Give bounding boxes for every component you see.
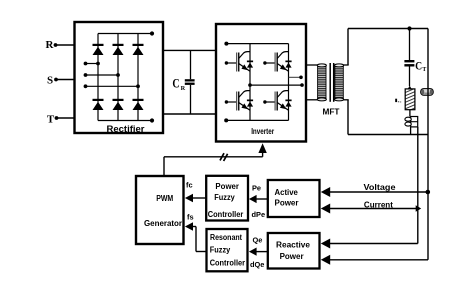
label CT xyxy=(415,59,426,73)
diode of Q1 (antiparallel, on leg) xyxy=(247,61,253,68)
load resistor (hatched workpiece) xyxy=(405,89,415,110)
DC link bottom wire xyxy=(163,113,216,115)
PWM generator label xyxy=(144,194,182,228)
power fuzzy controller block box xyxy=(206,176,248,221)
inverter top rail wire xyxy=(224,42,288,46)
transistor Q1 gate lead xyxy=(225,61,237,64)
transistor Q2 body xyxy=(275,52,288,72)
arrowhead into reactive power (voltage) xyxy=(321,255,330,265)
current sense wire (inner vertical) xyxy=(330,127,418,244)
current signal wire xyxy=(330,205,421,212)
MFT primary connection wires xyxy=(306,65,318,100)
arrowhead into reactive power (current) xyxy=(321,239,330,249)
transistor Q4 gate lead xyxy=(263,100,275,103)
diode of Q4 (antiparallel, on leg) xyxy=(285,100,291,107)
diode D4 (bottom row) xyxy=(93,99,104,110)
inverter block box xyxy=(216,24,306,142)
gating signal wire from PWM generator xyxy=(164,147,263,176)
transistor Q2 gate lead xyxy=(263,61,275,64)
svg-text:C: C xyxy=(172,77,179,91)
load inductance label L xyxy=(395,99,401,103)
diode D2 (top row) xyxy=(113,44,124,55)
capacitor CT xyxy=(404,60,414,86)
arrowhead into active power (current) xyxy=(321,204,330,214)
matching coil component xyxy=(405,117,418,127)
svg-text:Voltage: Voltage xyxy=(364,182,396,192)
svg-text:dPe: dPe xyxy=(252,210,266,219)
rectifier leg 1 wire xyxy=(97,34,99,121)
rectifier leg 2 wire xyxy=(117,34,119,121)
svg-text:Rectifier: Rectifier xyxy=(107,124,145,134)
svg-text:Reactive: Reactive xyxy=(276,241,311,250)
reactive power label xyxy=(276,241,311,262)
rectifier leg 3 wire xyxy=(137,34,139,121)
label CR xyxy=(172,77,185,92)
svg-text:Active: Active xyxy=(275,188,299,197)
junction dot bottom rail xyxy=(150,118,154,122)
current direction arrowhead xyxy=(408,86,412,90)
rectifier top rail wire xyxy=(98,33,152,35)
capacitor CR xyxy=(185,50,195,114)
three-phase input S xyxy=(47,75,75,87)
MFT core xyxy=(330,63,334,102)
arrowhead into inverter xyxy=(258,143,266,153)
diode of Q2 (antiparallel, on leg) xyxy=(285,61,291,68)
load loop left-bottom wire xyxy=(348,100,428,135)
wire coil to bottom line xyxy=(410,127,412,135)
svg-text:T: T xyxy=(47,113,55,125)
wire load to coil xyxy=(409,110,411,117)
svg-text:Power: Power xyxy=(275,199,299,208)
fc signal wire xyxy=(193,197,207,199)
PWM generator block box xyxy=(136,176,184,244)
phase tap wire 3 xyxy=(84,84,140,88)
svg-text:R: R xyxy=(46,39,55,51)
svg-text:Controller: Controller xyxy=(210,259,245,268)
svg-text:Fuzzy: Fuzzy xyxy=(214,193,235,202)
svg-text:Pe: Pe xyxy=(252,183,261,192)
arrowhead fc into PWM xyxy=(185,194,193,203)
phase tap wire 2 xyxy=(84,73,120,77)
svg-text:C: C xyxy=(415,59,422,73)
svg-text:Qe: Qe xyxy=(253,236,263,245)
capacitor CT branch wire xyxy=(409,29,411,61)
transistor Q3 gate lead xyxy=(225,100,237,103)
power fuzzy controller label xyxy=(208,182,244,219)
inverter right leg wire xyxy=(288,44,290,121)
arrowhead Qe into resonant fuzzy controller xyxy=(249,248,257,256)
three-phase input R xyxy=(46,39,75,51)
active power label xyxy=(275,188,299,208)
svg-text:Power: Power xyxy=(280,252,304,261)
diode of Q3 (antiparallel, on leg) xyxy=(247,100,253,107)
svg-text:dQe: dQe xyxy=(250,260,264,269)
inverter bottom rail wire xyxy=(224,118,288,122)
transistor Q1 body xyxy=(237,52,250,72)
active power block box xyxy=(268,180,320,217)
svg-text:Controller: Controller xyxy=(208,210,244,219)
inverter output stub wire 1 xyxy=(289,76,303,80)
svg-text:fs: fs xyxy=(187,213,194,222)
svg-text:Inverter: Inverter xyxy=(251,127,274,136)
inverter left leg wire xyxy=(249,44,251,121)
svg-text:R: R xyxy=(181,85,186,92)
svg-text:MFT: MFT xyxy=(323,107,341,117)
junction dot top rail xyxy=(150,31,154,35)
fs signal wire xyxy=(193,227,207,252)
three-phase input T xyxy=(47,113,75,125)
svg-text:Current: Current xyxy=(364,199,393,209)
Pe/dPe signal wire xyxy=(256,198,268,200)
svg-text:S: S xyxy=(47,75,53,87)
arrowhead into active power (voltage) xyxy=(321,187,330,197)
transistor Q4 body xyxy=(275,91,288,111)
junction dot on top line (node A) xyxy=(407,26,411,30)
diode D5 (bottom row) xyxy=(113,99,124,110)
resonant fuzzy controller block box xyxy=(207,229,248,271)
reactive power block box xyxy=(268,233,320,269)
svg-text:PWM: PWM xyxy=(156,194,173,203)
svg-text:Resonant: Resonant xyxy=(210,233,242,242)
MFT primary winding xyxy=(317,64,326,101)
svg-text:Generator: Generator xyxy=(144,219,182,228)
svg-text:T: T xyxy=(422,67,426,73)
Qe/dQe signal wire xyxy=(256,251,268,253)
transistor Q3 body xyxy=(237,91,250,111)
load loop right wire (through sensor) xyxy=(427,29,429,136)
rectifier bottom rail wire xyxy=(98,120,152,122)
arrowhead fs into PWM xyxy=(185,222,193,231)
current transformer sensor (toroid) xyxy=(421,89,434,96)
bus slash marks xyxy=(220,153,228,161)
MFT secondary connection wires xyxy=(343,65,348,100)
svg-text:Fuzzy: Fuzzy xyxy=(210,245,231,254)
voltage sense wire (right vertical) xyxy=(330,135,428,260)
MFT secondary winding xyxy=(335,64,344,101)
rectifier block box xyxy=(75,22,164,133)
resonant fuzzy controller label xyxy=(210,233,245,268)
voltage signal wire xyxy=(330,190,430,195)
phase tap wire 1 xyxy=(84,62,100,66)
DC link top wire xyxy=(163,49,216,51)
load loop left-top wire xyxy=(348,29,428,66)
inverter output stub wire 2 xyxy=(248,83,304,87)
svg-text:Power: Power xyxy=(215,182,239,191)
diode D3 (top row) xyxy=(133,44,144,55)
arrowhead Pe into power fuzzy controller xyxy=(249,195,257,203)
svg-text:fc: fc xyxy=(186,181,193,190)
diode D6 (bottom row) xyxy=(133,99,144,110)
diode D1 (top row) xyxy=(93,44,104,55)
